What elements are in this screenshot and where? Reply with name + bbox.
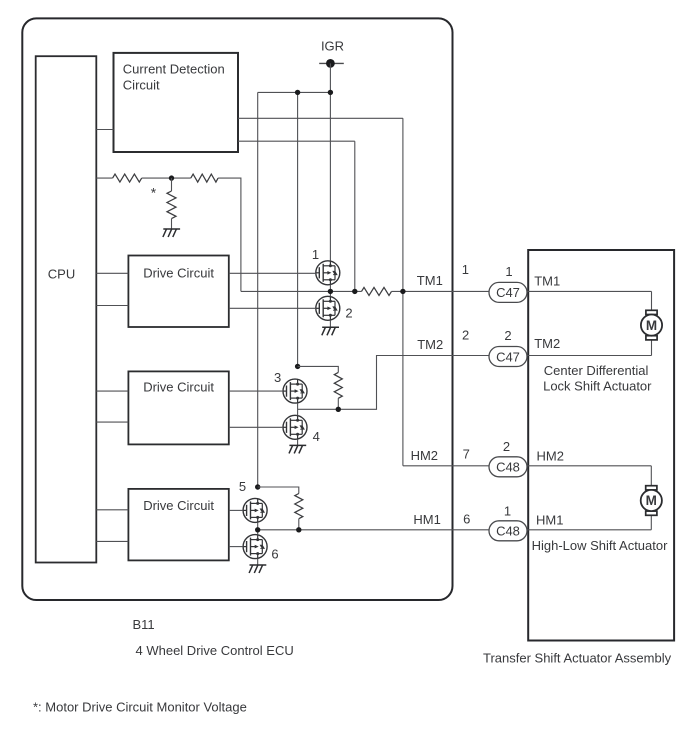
node TM1 junction sense 1 [400, 289, 405, 294]
svg-text:High-Low Shift Actuator: High-Low Shift Actuator [532, 538, 669, 553]
wire middle drop to transistor 3 drain [297, 92, 299, 366]
ground monitor resistor [163, 229, 180, 237]
drive circuit block 3 [128, 489, 228, 561]
wire left drop to transistor 5 drain [257, 92, 259, 487]
wire Q4 source to ground [297, 439, 299, 445]
ECU box B11 [22, 18, 452, 600]
svg-text:1: 1 [505, 264, 512, 279]
wire current detection sense 2 vertical [354, 141, 356, 291]
wire HM2 row [403, 465, 489, 467]
wire drive circuit 3 to Q5 gate [229, 509, 243, 511]
ground transistor Q2 [322, 327, 339, 335]
node TM1 junction at Q1-Q2 [328, 289, 333, 294]
svg-text:Center Differential: Center Differential [544, 363, 649, 378]
wire TM2 from Q3-Q4 junction [298, 356, 490, 410]
wire Q6 source to ground [257, 559, 259, 565]
wire drive circuit 2 to Q3 gate [229, 390, 283, 392]
current detection circuit block [114, 53, 239, 152]
wire current detection sense 1 horizontal [238, 117, 403, 119]
wire drive circuit 2 to Q4 gate [229, 426, 283, 428]
wire row resistor to corner down to TM1 [218, 178, 241, 291]
wire Q1 source to Q2 drain [329, 285, 331, 297]
node TM2 junction shunt [336, 407, 341, 412]
svg-text:HM2: HM2 [537, 449, 564, 464]
wire motor 2 top lead [650, 466, 652, 486]
wire TM2 inside actuator box [527, 355, 652, 357]
ground transistor Q6 [249, 565, 266, 573]
svg-text:TM1: TM1 [534, 274, 560, 289]
node TM1 junction sense 2 [352, 289, 357, 294]
transistor Q5 [243, 498, 267, 522]
transistor Q1 [316, 261, 340, 285]
transistor Q2 [316, 296, 340, 320]
connector C47 pin 1 [489, 282, 527, 302]
svg-text:HM1: HM1 [413, 512, 440, 527]
wire IGR vertical to transistor 1 drain [329, 63, 331, 261]
resistor monitor pulldown [167, 178, 176, 229]
wire motor 1 top lead [651, 291, 653, 310]
svg-text:TM1: TM1 [417, 273, 443, 288]
svg-text:HM1: HM1 [536, 513, 563, 528]
transistor Q6 [243, 535, 267, 559]
wire CPU to drive circuit 1 lower [96, 305, 128, 307]
svg-text:IGR: IGR [321, 39, 344, 54]
drive circuit block 2 [128, 371, 228, 444]
node junction above Q3 [295, 364, 300, 369]
svg-text:C48: C48 [496, 460, 520, 475]
svg-text:Transfer Shift Actuator Assemb: Transfer Shift Actuator Assembly [483, 651, 672, 666]
svg-text:1: 1 [504, 503, 511, 518]
wire CPU to monitor resistor row [96, 177, 112, 179]
svg-text:2: 2 [504, 328, 511, 343]
drive circuit block 1 [128, 256, 228, 328]
svg-text:2: 2 [462, 328, 469, 343]
connector C48 pin 1 [489, 521, 527, 541]
node HM1 junction shunt [296, 527, 301, 532]
wire HM1 row [258, 529, 490, 531]
node HM1 junction Q5-Q6 [255, 527, 260, 532]
wire Q3 shunt branch bottom [337, 398, 339, 409]
connector C47 pin 2 [489, 347, 527, 367]
wire Q3 source to Q4 drain [297, 403, 299, 415]
svg-text:7: 7 [463, 447, 470, 462]
ground transistor Q4 [289, 445, 306, 453]
node junction monitor row [169, 175, 174, 180]
resistor Q3 shunt [334, 372, 342, 398]
svg-text:TM2: TM2 [534, 336, 560, 351]
svg-text:4 Wheel Drive Control ECU: 4 Wheel Drive Control ECU [136, 643, 294, 658]
svg-text:Lock Shift Actuator: Lock Shift Actuator [543, 379, 652, 394]
wire CPU to drive circuit 3 upper [96, 509, 128, 511]
svg-text:*: Motor Drive Circuit Monitor: *: Motor Drive Circuit Monitor Voltage [33, 700, 247, 715]
wire current detection sense 1 vertical down to HM2 [402, 118, 404, 466]
wire Q2 source to ground [329, 320, 331, 327]
wire drive circuit 3 to Q6 gate [229, 546, 243, 548]
resistor monitor row left [113, 174, 142, 182]
svg-text:1: 1 [462, 262, 469, 277]
wire drive circuit 1 to Q1 gate [229, 272, 316, 274]
transfer shift actuator assembly box [528, 250, 674, 641]
wire CPU to drive circuit 2 lower [96, 421, 128, 423]
wire Q5 shunt branch top [258, 487, 299, 494]
resistor Q5 shunt [295, 494, 303, 519]
CPU block [36, 56, 97, 562]
svg-text:2: 2 [345, 306, 352, 321]
wire HM1 inside actuator box [527, 529, 652, 531]
svg-text:TM2: TM2 [417, 337, 443, 352]
wire TM1 right segment to connector [392, 290, 490, 292]
svg-text:HM2: HM2 [411, 448, 438, 463]
wire drive circuit 1 to Q2 gate [229, 307, 316, 309]
IGR terminal [319, 59, 344, 68]
wire TM1 inside actuator box [527, 290, 652, 292]
svg-text:4: 4 [313, 429, 320, 444]
wire between row resistors [142, 177, 191, 179]
svg-text:3: 3 [274, 370, 281, 385]
node junction top row right [328, 90, 333, 95]
svg-text:C48: C48 [496, 524, 520, 539]
svg-text:6: 6 [463, 512, 470, 527]
node junction top row middle [295, 90, 300, 95]
svg-text:Current Detection: Current Detection [123, 62, 225, 77]
motor high-low shift [641, 486, 662, 516]
wire motor 1 bottom lead [651, 339, 653, 355]
resistor monitor row right [191, 174, 218, 182]
wire Q5 shunt branch bottom [298, 519, 300, 530]
svg-text:6: 6 [271, 547, 278, 562]
svg-text:CPU: CPU [48, 267, 75, 282]
svg-text:5: 5 [239, 479, 246, 494]
svg-text:C47: C47 [496, 285, 520, 300]
transistor Q3 [283, 379, 307, 403]
svg-text:Drive Circuit: Drive Circuit [143, 498, 214, 513]
svg-text:1: 1 [312, 247, 319, 262]
wire top distribution row [258, 91, 331, 93]
wire TM1 left segment [241, 290, 362, 292]
wire Q5 source to Q6 drain [257, 522, 259, 534]
connector C48 pin 2 [489, 457, 527, 477]
svg-text:2: 2 [503, 439, 510, 454]
wire current detection sense 2 horizontal [238, 140, 355, 142]
svg-text:Circuit: Circuit [123, 78, 160, 93]
node junction above Q5 [255, 484, 260, 489]
wire CPU to drive circuit 2 upper [96, 390, 128, 392]
transistor Q4 [283, 415, 307, 439]
wire CPU to drive circuit 1 upper [96, 272, 128, 274]
wire HM2 inside actuator box [527, 465, 651, 467]
svg-text:C47: C47 [496, 349, 520, 364]
wire motor 2 bottom lead [650, 515, 652, 530]
svg-text:*: * [151, 185, 157, 201]
wire CPU to drive circuit 3 lower [96, 540, 128, 542]
wire Q3 shunt branch top [298, 366, 339, 372]
svg-text:B11: B11 [133, 617, 155, 632]
wire CPU to current detection circuit [96, 129, 113, 131]
svg-text:Drive Circuit: Drive Circuit [143, 266, 214, 281]
svg-text:Drive Circuit: Drive Circuit [143, 380, 214, 395]
resistor TM1 shunt [362, 287, 392, 295]
motor center differential lock [641, 310, 662, 340]
